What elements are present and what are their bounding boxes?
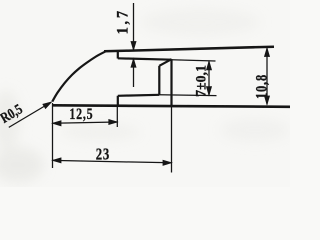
svg-text:7±0,1: 7±0,1 xyxy=(193,65,210,97)
svg-text:12,5: 12,5 xyxy=(69,105,93,123)
svg-text:1,7: 1,7 xyxy=(114,8,132,34)
svg-text:23: 23 xyxy=(96,146,110,164)
svg-text:10,8: 10,8 xyxy=(253,74,271,99)
